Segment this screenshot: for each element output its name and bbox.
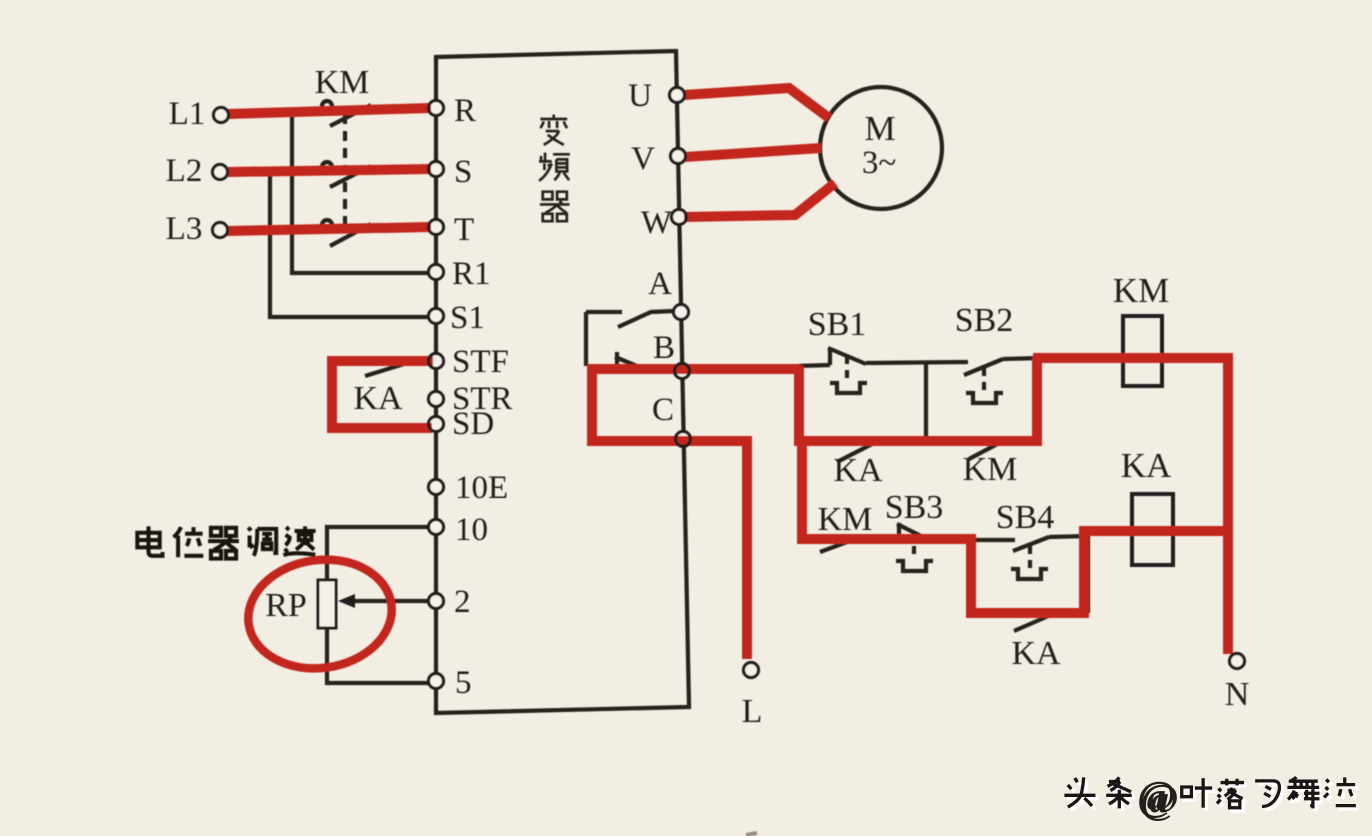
terminal 10E xyxy=(429,480,444,495)
svg-text:N: N xyxy=(1225,676,1250,713)
terminal circle fills xyxy=(214,108,229,123)
terminal A xyxy=(674,305,689,320)
terminal L1 xyxy=(214,108,229,123)
red highlight ellipse around RP xyxy=(241,551,399,678)
terminal L3 xyxy=(213,223,228,238)
svg-text:U: U xyxy=(628,78,652,114)
pushbutton SB1 (NC) xyxy=(828,348,968,365)
svg-text:RP: RP xyxy=(265,587,307,624)
row3 wire xyxy=(905,538,1015,542)
potentiometer RP body xyxy=(318,580,336,628)
svg-text:SD: SD xyxy=(452,406,494,442)
pushbutton SB4 (NO) xyxy=(1013,536,1088,613)
wire RP bottom to 5 xyxy=(327,628,430,683)
svg-text:KM: KM xyxy=(315,64,370,101)
red wire L3 to T xyxy=(227,227,431,231)
svg-text:SB3: SB3 xyxy=(885,489,944,526)
terminal S1 xyxy=(429,309,444,324)
svg-text:STF: STF xyxy=(452,344,509,380)
terminal R xyxy=(429,101,444,116)
terminal STF xyxy=(429,354,444,369)
terminal W xyxy=(672,210,687,225)
watermark 头条@叶落飞舞泣 black copy xyxy=(1064,774,1355,820)
terminal T xyxy=(429,220,444,235)
svg-text:10: 10 xyxy=(455,512,488,548)
svg-text:KM: KM xyxy=(963,451,1018,488)
svg-text:5: 5 xyxy=(455,665,472,701)
contactor contact KM (row3) xyxy=(820,538,858,552)
svg-text:SB1: SB1 xyxy=(808,306,867,343)
svg-text:KA: KA xyxy=(1121,446,1172,485)
svg-text:C: C xyxy=(652,392,674,428)
red wire STF-KA-SD loop xyxy=(332,361,433,428)
inverter B contact tick xyxy=(615,352,642,368)
svg-text:W: W xyxy=(641,205,673,241)
svg-text:2: 2 xyxy=(454,584,471,620)
terminal 5 xyxy=(429,674,444,689)
svg-text:S1: S1 xyxy=(450,300,485,336)
terminal C xyxy=(676,432,691,447)
terminal L xyxy=(744,663,759,678)
inverter A-B fault contact xyxy=(586,311,674,366)
wire 10 to RP top xyxy=(327,527,430,580)
terminal V xyxy=(671,149,686,164)
svg-text:KA: KA xyxy=(353,380,403,417)
terminal 2 xyxy=(429,594,444,609)
red wire L1 to R xyxy=(228,108,431,114)
terminal U xyxy=(670,88,685,103)
svg-text:L1: L1 xyxy=(169,96,206,132)
svg-text:A: A xyxy=(648,266,672,302)
inverter box 变频器 xyxy=(436,51,689,713)
terminal N xyxy=(1230,654,1245,669)
svg-text:L: L xyxy=(742,693,763,730)
red wire L2 to S xyxy=(227,169,431,172)
red wire SB1-SB2 branch down and up xyxy=(799,357,1037,441)
relay coil KA xyxy=(1132,494,1173,565)
relay contact KA (row4) xyxy=(1014,614,1053,631)
svg-text:SB2: SB2 xyxy=(955,302,1014,339)
svg-text:T: T xyxy=(454,212,474,248)
svg-text:L2: L2 xyxy=(166,153,203,189)
motor M circle xyxy=(820,87,942,209)
svg-text:KA: KA xyxy=(833,452,883,489)
terminal STR xyxy=(429,392,444,407)
red wire W to motor xyxy=(684,183,835,217)
KA contact at STF xyxy=(365,364,404,376)
text 电位器调速 (potentiometer speed control) xyxy=(137,526,315,558)
red wire node B to C to terminal L xyxy=(592,369,801,659)
pushbutton SB2 (NO) xyxy=(964,358,1040,375)
contactor contact KM (self-hold row2) xyxy=(969,441,1003,459)
svg-text:KM: KM xyxy=(818,501,873,538)
svg-text:3~: 3~ xyxy=(862,145,896,181)
terminal S xyxy=(429,162,444,177)
terminal L2 xyxy=(213,165,228,180)
red wire through coil KM down to N xyxy=(1033,358,1228,654)
contactor KM main contacts (3-pole, dashed linkage) xyxy=(322,101,371,246)
svg-text:M: M xyxy=(864,109,895,148)
red wire U to motor xyxy=(684,88,829,118)
terminal B xyxy=(675,364,690,379)
wire L2 tap to S1 xyxy=(270,172,430,317)
svg-text:V: V xyxy=(631,141,655,177)
text 变频器 (inverter) vertical xyxy=(539,115,570,221)
svg-text:S: S xyxy=(454,154,472,190)
RP wiper arrow to terminal 2 xyxy=(352,599,432,603)
watermark 头条@叶落飞舞泣 white shadow copy xyxy=(1067,777,1358,823)
terminal 10 xyxy=(429,520,444,535)
row4 wire xyxy=(1005,611,1088,615)
relay contact KA (self-hold row2) xyxy=(837,442,876,462)
control wire row1 left stub xyxy=(797,365,830,366)
contactor coil KM xyxy=(1123,316,1162,386)
red wire V to motor xyxy=(685,148,821,157)
pushbutton SB3 (NC) xyxy=(897,523,931,541)
junction wire to KA/KM holding contacts xyxy=(924,363,928,441)
scan speckle bottom xyxy=(746,833,757,835)
svg-text:L3: L3 xyxy=(166,211,203,247)
svg-text:B: B xyxy=(653,330,675,366)
svg-text:KM: KM xyxy=(1113,271,1169,310)
terminal R1 xyxy=(429,265,444,280)
red wire row3 SB3-SB4 loop to coil KA xyxy=(802,445,1226,613)
wire L1 tap to R1 xyxy=(292,110,430,273)
svg-text:SB4: SB4 xyxy=(996,499,1055,536)
terminal SD xyxy=(429,417,444,432)
svg-text:R: R xyxy=(454,93,476,129)
svg-text:KA: KA xyxy=(1011,635,1061,672)
svg-text:R1: R1 xyxy=(452,256,491,292)
svg-text:10E: 10E xyxy=(455,470,508,506)
